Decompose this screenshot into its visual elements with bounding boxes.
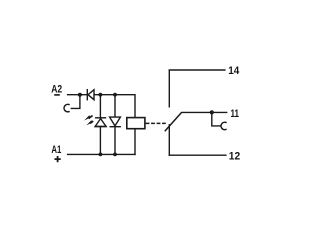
svg-text:14: 14	[228, 65, 240, 77]
wire A2 to diode	[67, 94, 87, 96]
wire plug-in drop from A2 node	[71, 95, 80, 109]
wire terminal 11 common	[181, 111, 227, 113]
LED emission arrows	[84, 114, 93, 127]
node dot bottom diode branch	[113, 153, 117, 157]
svg-text:11: 11	[231, 108, 240, 120]
wire diode branch upper	[114, 95, 116, 117]
plus polarity sign at A1	[55, 156, 61, 162]
node dot top diode branch	[113, 93, 117, 97]
svg-text:A2: A2	[51, 83, 62, 95]
diode D2 (freewheeling, conducts down, cathode bar bottom)	[110, 117, 121, 127]
plug-in socket contact at 11	[221, 122, 227, 129]
node junction at 11	[210, 110, 214, 114]
node dot bottom LED branch	[99, 153, 103, 157]
wire terminal 12	[169, 154, 227, 156]
wire coil branch lower	[134, 129, 136, 155]
dashed actuator link coil to contact	[146, 122, 166, 124]
wire bottom rail A1	[67, 153, 136, 155]
wire top rail	[94, 94, 135, 96]
relay coil K1	[127, 118, 145, 129]
wire plug-in drop from 11 node	[212, 112, 221, 126]
node dot top LED branch	[99, 93, 103, 97]
wire NC fixed contact to 12	[168, 124, 170, 156]
contact arm (movable, from 11)	[165, 112, 182, 131]
wire LED branch lower	[99, 127, 101, 155]
node junction at A2	[78, 93, 82, 97]
svg-text:A1: A1	[51, 144, 61, 156]
wire terminal 14	[169, 69, 226, 71]
wire LED branch upper	[99, 95, 101, 118]
diode D1 (series, cathode left)	[87, 89, 94, 100]
minus polarity sign at A2	[54, 94, 60, 96]
svg-text:12: 12	[229, 150, 240, 162]
wire NO fixed contact from 14	[168, 70, 170, 108]
LED indicator (conducts up, cathode bar top)	[95, 118, 107, 127]
wire diode branch lower	[114, 127, 116, 155]
wire coil branch upper	[134, 94, 136, 118]
plug-in socket contact at A2	[64, 104, 70, 111]
